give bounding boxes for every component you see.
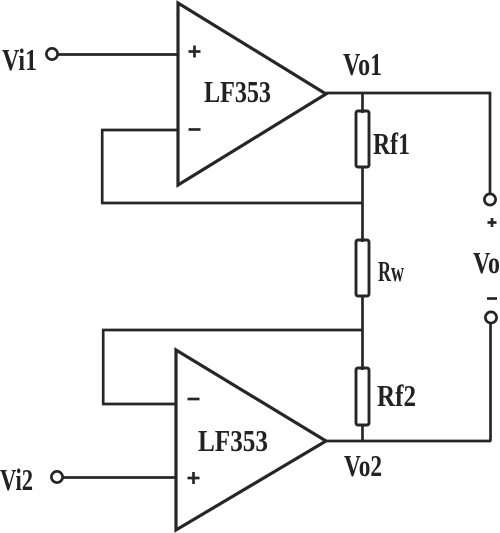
svg-text:Rf2: Rf2 [377,378,416,413]
op-amp U1 pin + marker [189,46,201,58]
output terminal + [484,194,495,205]
op-amp U2 pin + marker [188,472,200,484]
svg-text:LF353: LF353 [204,74,271,109]
op-amp U2 pin - marker [188,398,200,401]
wire Vi2 to U2 + input [63,476,176,479]
label + (output polarity) [488,218,497,227]
wire U1 feedback horizontal to node A [101,202,363,205]
input terminal Vi2 [51,471,62,482]
svg-text:Vo: Vo [473,245,500,280]
svg-text:Rw: Rw [378,256,404,288]
wire node Vo1 down to Rf1 [361,93,364,113]
wire Rf1 bottom to feedback node A [361,167,364,242]
wire U1 feedback vertical [101,130,104,203]
output terminal - [485,312,496,323]
op-amp U1 pin - marker [189,128,201,131]
resistor Rw [356,240,369,296]
wire right vertical bottom [489,324,492,442]
svg-text:Vi2: Vi2 [0,462,33,497]
wire U2 output to right corner [326,440,491,443]
wire Vi1 to U1 + input [58,53,178,56]
svg-text:Vo1: Vo1 [343,46,382,82]
label - (output polarity) [487,297,497,300]
resistor Rf2 [356,368,369,425]
op-amp U1 [178,3,326,185]
wire U2 feedback horizontal from node B [102,329,363,332]
wire U1 output to right corner [326,92,491,95]
svg-text:Vi1: Vi1 [2,42,37,77]
wire Rw bottom to node B [361,296,364,370]
resistor Rf1 [356,111,369,167]
wire U2 feedback vertical [102,330,105,404]
wire U2 - input segment [102,403,176,406]
wire Rf2 bottom to Vo2 node [361,425,364,441]
op-amp U2 [176,350,326,530]
svg-text:LF353: LF353 [198,423,268,458]
svg-text:Vo2: Vo2 [344,448,382,483]
wire U1 - input segment [101,129,178,132]
wire right vertical top [489,93,492,194]
svg-text:Rf1: Rf1 [373,126,410,161]
input terminal Vi1 [46,48,57,59]
